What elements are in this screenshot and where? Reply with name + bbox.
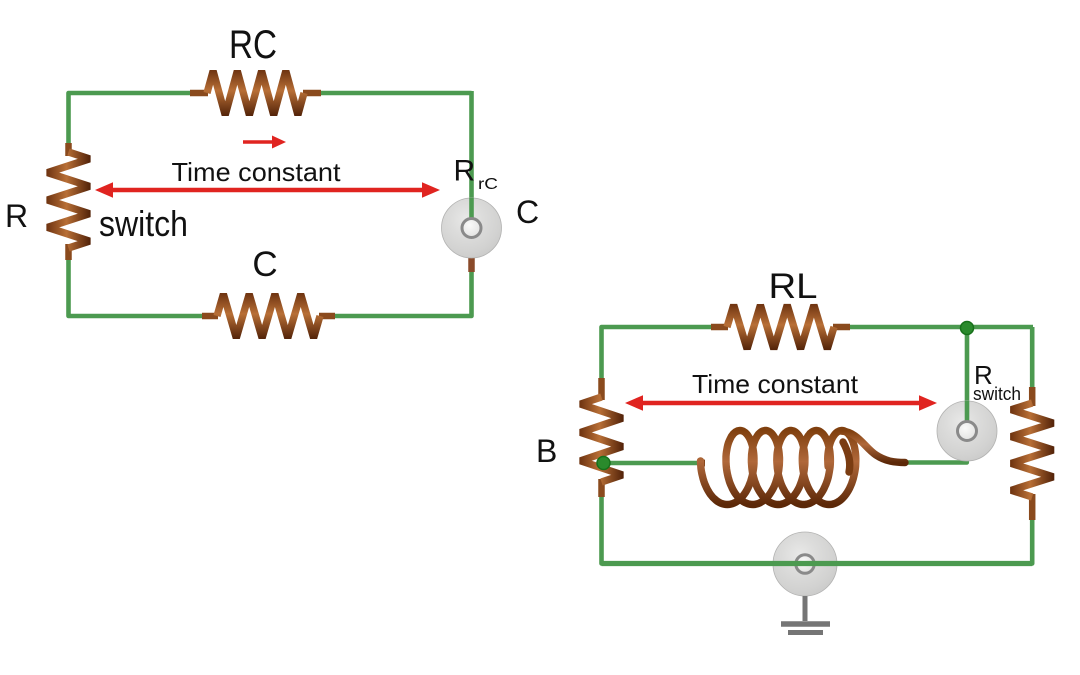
svg-text:R: R (454, 155, 476, 188)
svg-text:R: R (5, 198, 28, 234)
svg-text:Time constant: Time constant (692, 369, 859, 399)
svg-text:switch: switch (99, 203, 188, 244)
svg-text:Time constant: Time constant (172, 157, 342, 187)
svg-text:switch: switch (973, 383, 1021, 404)
svg-text:C: C (252, 245, 277, 284)
svg-text:RL: RL (769, 267, 818, 306)
svg-text:C: C (516, 194, 539, 230)
svg-text:B: B (536, 433, 557, 469)
svg-text:rC: rC (478, 176, 498, 193)
svg-text:RC: RC (229, 23, 277, 67)
